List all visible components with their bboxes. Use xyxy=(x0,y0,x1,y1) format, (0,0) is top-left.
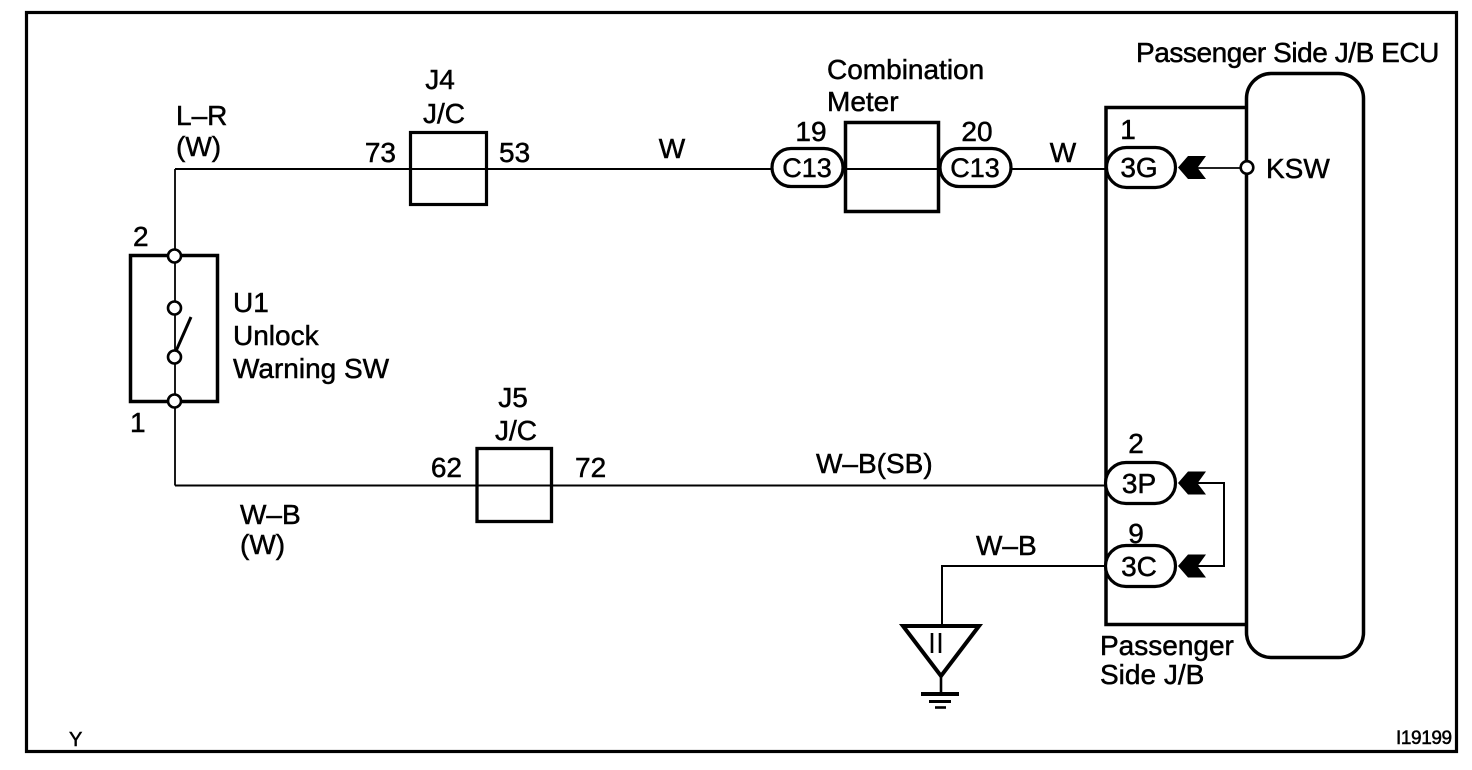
svg-text:Passenger Side J/B ECU: Passenger Side J/B ECU xyxy=(1136,37,1439,68)
svg-text:W: W xyxy=(1050,137,1077,168)
svg-text:2: 2 xyxy=(133,221,149,252)
arrow into 3C xyxy=(1178,555,1206,578)
svg-text:U1: U1 xyxy=(233,287,269,318)
svg-text:72: 72 xyxy=(575,452,606,483)
connector C13 pin 20 xyxy=(940,149,1011,187)
svg-text:C13: C13 xyxy=(950,153,1000,183)
svg-text:53: 53 xyxy=(499,137,530,168)
svg-text:(W): (W) xyxy=(176,131,221,162)
connector C13 pin 19 xyxy=(772,149,843,187)
svg-text:9: 9 xyxy=(1128,518,1144,549)
wire to ground xyxy=(942,566,1105,626)
arrow into 3G xyxy=(1178,156,1206,179)
ground symbol xyxy=(903,626,979,708)
svg-text:W–B: W–B xyxy=(976,530,1037,561)
svg-text:I19199: I19199 xyxy=(1396,728,1452,749)
svg-text:W–B: W–B xyxy=(240,499,301,530)
Passenger Side J/B caption xyxy=(1100,630,1234,690)
wire label W-B (W) xyxy=(240,499,301,560)
wire top horizontal W xyxy=(175,168,1107,170)
connector 3P pin 2 xyxy=(1106,463,1176,504)
svg-text:Combination: Combination xyxy=(827,54,984,85)
wire link 3P to 3C xyxy=(1197,483,1224,566)
svg-text:J4: J4 xyxy=(425,64,455,95)
connector 3G pin 1 xyxy=(1107,148,1176,188)
junction J4 J/C xyxy=(411,64,487,205)
node label L-R (W) xyxy=(176,100,227,162)
svg-text:Unlock: Unlock xyxy=(233,320,320,351)
Passenger Side J/B block xyxy=(1106,108,1247,625)
wire bottom horizontal W-B xyxy=(175,485,1106,487)
connector 3C pin 9 xyxy=(1106,546,1176,587)
junction J5 J/C xyxy=(477,382,552,522)
svg-text:Meter: Meter xyxy=(827,86,899,117)
Passenger Side J/B ECU block xyxy=(1247,74,1364,658)
svg-text:1: 1 xyxy=(1120,114,1136,145)
wire left vertical from L-R corner through switch xyxy=(174,169,176,486)
arrow into 3P xyxy=(1178,472,1206,495)
svg-text:3C: 3C xyxy=(1121,551,1157,582)
svg-text:Passenger: Passenger xyxy=(1100,630,1234,661)
combination meter box xyxy=(827,54,984,212)
svg-text:Side J/B: Side J/B xyxy=(1100,659,1204,690)
svg-text:1: 1 xyxy=(130,407,146,438)
svg-text:W: W xyxy=(659,133,686,164)
svg-text:(W): (W) xyxy=(240,529,285,560)
svg-text:3P: 3P xyxy=(1122,468,1156,499)
wire KSW xyxy=(1197,167,1242,169)
svg-text:J5: J5 xyxy=(498,382,528,413)
svg-text:Warning SW: Warning SW xyxy=(233,353,390,384)
svg-text:2: 2 xyxy=(1128,428,1144,459)
svg-text:3G: 3G xyxy=(1120,152,1157,183)
U1 label xyxy=(233,287,390,384)
svg-text:73: 73 xyxy=(365,137,396,168)
svg-text:19: 19 xyxy=(795,116,826,147)
svg-text:KSW: KSW xyxy=(1266,153,1330,184)
svg-text:W–B(SB): W–B(SB) xyxy=(816,448,933,479)
svg-text:62: 62 xyxy=(431,452,462,483)
svg-text:C13: C13 xyxy=(782,153,832,183)
node KSW xyxy=(1241,161,1254,174)
svg-text:J/C: J/C xyxy=(423,98,465,129)
svg-text:20: 20 xyxy=(961,116,992,147)
svg-text:Y: Y xyxy=(69,729,82,751)
switch U1 Unlock Warning SW xyxy=(131,250,218,408)
svg-text:L–R: L–R xyxy=(176,100,227,131)
svg-text:J/C: J/C xyxy=(495,415,537,446)
